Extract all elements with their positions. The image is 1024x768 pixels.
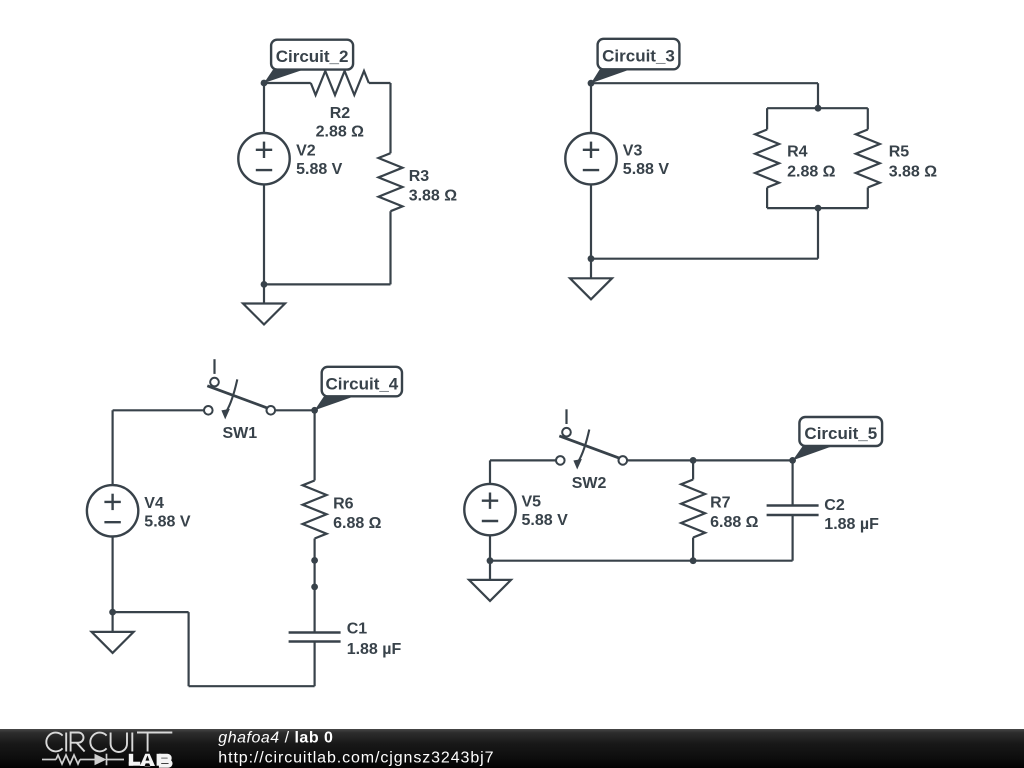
wire R4 bottom lead [766, 188, 768, 209]
svg-text:Circuit_4: Circuit_4 [326, 374, 399, 393]
wire C1 down [314, 642, 316, 687]
wire C2 bottom lead [791, 515, 793, 561]
resistor R2 [311, 71, 369, 95]
wire R7 to bottom [692, 538, 694, 561]
wire right vertical to R3 [389, 83, 391, 153]
callout Circuit_5 [793, 417, 883, 460]
svg-text:1.88 µF: 1.88 µF [824, 516, 879, 533]
svg-text:R6: R6 [333, 496, 354, 513]
node corner C2 top [789, 457, 796, 464]
voltage source V4 [87, 485, 138, 536]
switch SW1 [204, 359, 275, 419]
node bottom-left circuit2 [261, 281, 268, 288]
svg-text:V4: V4 [144, 495, 164, 512]
wire V2 to bottom node [263, 184, 265, 284]
wire switch to R7 node to corner [627, 459, 793, 461]
svg-text:R7: R7 [710, 495, 731, 512]
svg-text:6.88 Ω: 6.88 Ω [710, 514, 759, 531]
wire bottom (right corner to node) [264, 283, 391, 285]
svg-text:3.88 Ω: 3.88 Ω [889, 163, 938, 180]
resistor R5 [856, 130, 880, 188]
wire top-left (corner to switch) [490, 459, 556, 461]
node ground circuit4 [109, 609, 116, 616]
svg-text:5.88 V: 5.88 V [144, 513, 191, 530]
wire up to ground level [188, 612, 190, 686]
node top-left circuit3 [588, 80, 595, 87]
wire bottom across [490, 560, 793, 562]
node R7 top [690, 457, 697, 464]
junction dot 1 [311, 557, 318, 564]
wire R5 bottom lead [867, 188, 869, 209]
wire R3 to bottom-right corner [389, 211, 391, 284]
wire bus down to bottom wire [817, 208, 819, 259]
svg-text:Circuit_5: Circuit_5 [804, 424, 877, 443]
svg-text:C2: C2 [824, 497, 845, 514]
node bottom-left circuit3 [588, 255, 595, 262]
wire bottom (to node) [591, 258, 818, 260]
resistor R4 [755, 130, 779, 188]
voltage source V5 [464, 484, 515, 535]
wire node down to R7 [692, 460, 694, 479]
node R7 bottom [690, 557, 697, 564]
wire V4 to ground node [111, 537, 113, 613]
svg-text:R2: R2 [330, 105, 351, 122]
callout Circuit_2 [264, 40, 353, 83]
ground circuit3 [570, 259, 612, 300]
wire V5 to ground node [489, 535, 491, 560]
wire bottom across [189, 685, 315, 687]
wire to ground node [113, 611, 189, 613]
U [111, 733, 127, 753]
svg-text:Circuit_2: Circuit_2 [276, 47, 349, 66]
svg-text:R4: R4 [787, 143, 808, 160]
logo LAB text [129, 754, 171, 767]
wire left top (node to V3) [590, 83, 592, 133]
I [65, 733, 67, 752]
wire R2 to top-right corner [369, 82, 391, 84]
wire R5 top lead [867, 108, 869, 129]
svg-text:V3: V3 [623, 143, 643, 160]
svg-text:3.88 Ω: 3.88 Ω [409, 188, 458, 205]
ground circuit2 [243, 284, 285, 324]
C [46, 733, 62, 752]
callout Circuit_4 [315, 367, 402, 411]
svg-text:Circuit_3: Circuit_3 [602, 47, 675, 66]
resistor R6 [303, 481, 327, 539]
wire top-left (corner to switch) [113, 409, 204, 411]
voltage source V2 [238, 133, 289, 184]
svg-text:SW1: SW1 [223, 425, 258, 442]
wire top bus [767, 107, 868, 109]
switch SW2 [556, 409, 627, 469]
svg-text:V2: V2 [296, 143, 316, 160]
svg-text:6.88 Ω: 6.88 Ω [333, 515, 382, 532]
wire R6 to C1 [314, 539, 316, 633]
svg-text:V5: V5 [522, 494, 542, 511]
svg-text:C1: C1 [347, 621, 368, 638]
svg-text:http://circuitlab.com/cjgnsz32: http://circuitlab.com/cjgnsz3243bj7 [218, 749, 494, 766]
node ground circuit5 [487, 557, 494, 564]
wire bottom bus [767, 207, 868, 209]
resistor R3 [379, 153, 403, 211]
wire V3 to bottom node [590, 184, 592, 258]
wire switch to node [275, 409, 315, 411]
svg-text:5.88 V: 5.88 V [296, 161, 343, 178]
wire R4 top lead [766, 108, 768, 129]
wire top (node to corner) [591, 82, 818, 84]
svg-text:2.88 Ω: 2.88 Ω [787, 163, 836, 180]
T [137, 733, 172, 752]
C [90, 733, 106, 752]
wire top (node to R2) [264, 82, 311, 84]
wire corner to V4 [111, 410, 113, 485]
R [71, 733, 85, 752]
svg-text:1.88 µF: 1.88 µF [347, 641, 402, 658]
wire left top (node to V2) [263, 83, 265, 133]
callout Circuit_3 [591, 39, 679, 83]
node top-left circuit2 [261, 80, 268, 87]
node top bus [815, 105, 822, 112]
resistor R7 [681, 480, 705, 538]
svg-text:5.88 V: 5.88 V [623, 161, 670, 178]
wire corner to V5 [489, 460, 491, 484]
I [131, 733, 133, 752]
node top-right circuit4 [311, 407, 318, 414]
svg-text:ghafoa4 / lab 0: ghafoa4 / lab 0 [218, 729, 333, 746]
wire C2 top lead [791, 460, 793, 505]
svg-text:R5: R5 [889, 143, 910, 160]
voltage source V3 [565, 133, 616, 184]
ground circuit4 [92, 612, 134, 653]
svg-text:SW2: SW2 [572, 475, 607, 492]
svg-text:5.88 V: 5.88 V [522, 512, 569, 529]
logo CIRCUIT letters [46, 733, 172, 753]
ground circuit5 [469, 561, 511, 601]
node bottom bus [815, 205, 822, 212]
capacitor C2 [767, 506, 819, 516]
svg-text:R3: R3 [409, 168, 430, 185]
logo resistor-diode art [42, 754, 124, 766]
wire node down to R6 [314, 410, 316, 480]
svg-text:2.88 Ω: 2.88 Ω [316, 124, 365, 141]
wire corner down to top bus [817, 83, 819, 108]
junction dot 2 [311, 584, 318, 591]
capacitor C1 [289, 633, 341, 642]
